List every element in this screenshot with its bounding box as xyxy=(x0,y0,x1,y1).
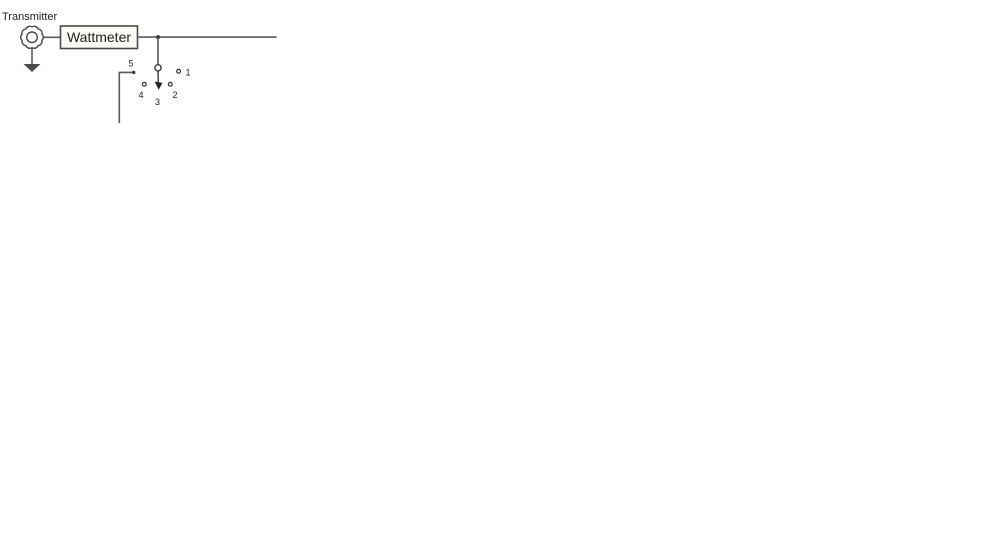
node A junction dot xyxy=(156,35,160,39)
svg-text:1: 1 xyxy=(186,68,191,78)
svg-text:Transmitter: Transmitter xyxy=(2,11,58,23)
svg-text:3: 3 xyxy=(155,97,160,107)
wire contact 5 to dummy load xyxy=(119,72,132,123)
switch S1 wiper pole circle xyxy=(155,65,161,71)
switch S1 wiper feed wire xyxy=(157,37,159,65)
switch S1 contact 4 xyxy=(142,82,146,86)
svg-text:4: 4 xyxy=(139,90,144,100)
switch S1 wiper arm arrow xyxy=(155,71,163,90)
svg-text:5: 5 xyxy=(129,59,134,69)
wire wattmeter to node A xyxy=(138,36,277,38)
switch S1 contact 5 xyxy=(132,71,135,74)
wire transmitter to wattmeter xyxy=(43,36,61,38)
wattmeter box xyxy=(61,26,138,49)
switch S1 contact 2 xyxy=(168,82,172,86)
svg-text:Wattmeter: Wattmeter xyxy=(67,29,131,45)
ground under transmitter xyxy=(24,49,41,73)
switch S1 contact 1 xyxy=(177,69,181,73)
svg-text:2: 2 xyxy=(173,90,178,100)
connector J1 transmitter coax xyxy=(21,26,44,48)
